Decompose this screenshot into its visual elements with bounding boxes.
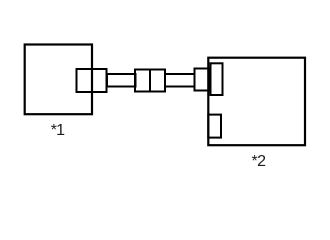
svg-text:*2: *2 — [251, 153, 266, 170]
svg-text:*1: *1 — [51, 122, 65, 139]
